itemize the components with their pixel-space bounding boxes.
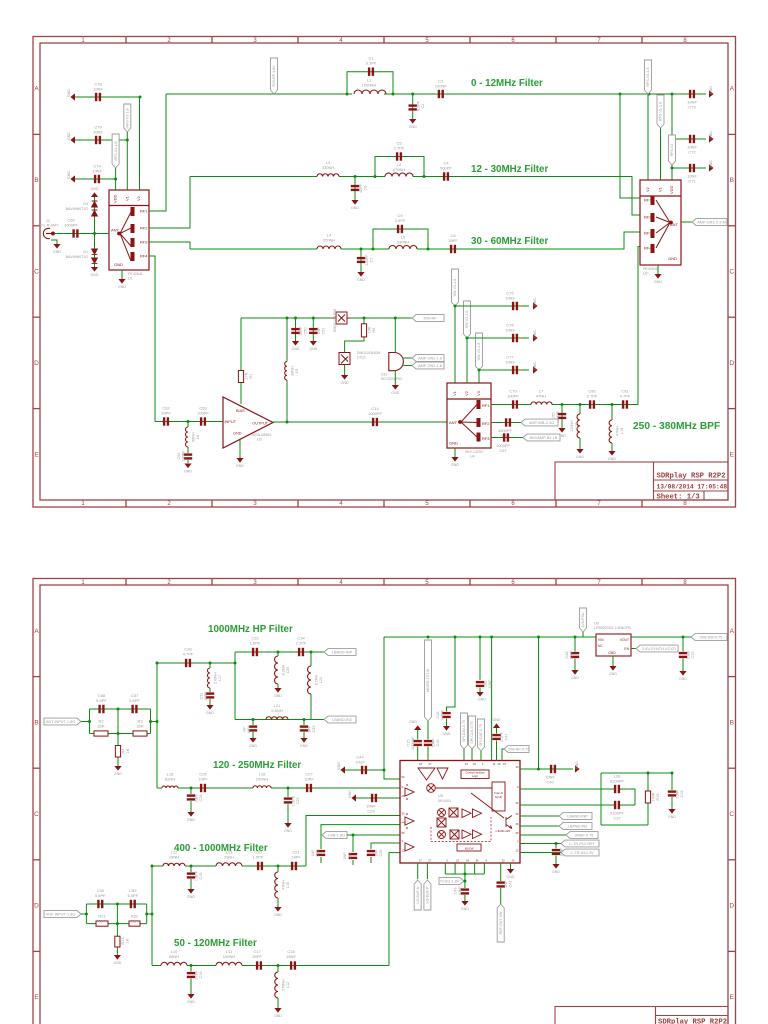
svg-text:2V8-RF-0.75: 2V8-RF-0.75 (508, 748, 530, 752)
svg-text:18PF: 18PF (291, 855, 301, 860)
ground below C41 (552, 864, 559, 869)
svg-text:10NF: 10NF (505, 296, 515, 301)
capacitor C47 (492, 734, 500, 740)
flag V1 control (124, 104, 131, 132)
U5 internals (405, 768, 512, 851)
capacitor C19b (187, 872, 195, 878)
capacitor C16b (187, 972, 195, 978)
svg-text:C-TR-P12-RET: C-TR-P12-RET (569, 842, 596, 846)
inductor L19 (609, 420, 612, 443)
wire C47 channel (496, 728, 498, 734)
svg-text:C10: C10 (691, 652, 695, 659)
junction C86 riser (479, 636, 482, 639)
wire C50 shunt (295, 318, 297, 341)
junction L20 (277, 651, 280, 654)
wire CTRL P12 (520, 843, 561, 845)
wire xtal loop top (601, 772, 672, 774)
flag above U2 V2 (645, 60, 652, 94)
svg-text:L12: L12 (286, 982, 290, 988)
svg-text:U10: U10 (381, 373, 387, 377)
ground below gate (394, 371, 396, 385)
svg-text:100NF: 100NF (435, 84, 448, 89)
svg-text:33R: 33R (98, 919, 105, 924)
wire R4 shunt (117, 708, 120, 711)
svg-text:U.FL-R-SMT: U.FL-R-SMT (38, 224, 59, 228)
ground below C33 (300, 738, 307, 743)
svg-text:Synth: Synth (495, 795, 503, 799)
wire C19 shunt (671, 773, 673, 790)
capacitor C51 (309, 328, 317, 334)
junction C10 (682, 636, 685, 639)
wire C2 shunt (412, 94, 414, 119)
wire C40 line (520, 768, 573, 770)
wire L6 shunt (187, 422, 189, 428)
inductor L22 (308, 666, 312, 694)
svg-text:L-BAND-AMP: L-BAND-AMP (496, 830, 511, 833)
wire into mixer VCC (384, 770, 400, 779)
ground below C19b (187, 889, 194, 894)
svg-text:GND: GND (309, 347, 317, 351)
capacitor C48 (442, 712, 450, 718)
wire C79 net (75, 139, 127, 141)
inductor L18 (253, 786, 271, 788)
flag V2 control (112, 134, 119, 168)
svg-text:A: A (730, 628, 735, 635)
capacitor C66 (505, 418, 511, 426)
capacitor C43 (461, 888, 469, 894)
wire mixer supply riser (491, 637, 493, 761)
ground below C64 (184, 464, 191, 469)
svg-text:C: C (34, 811, 39, 818)
ground below C43 (461, 901, 468, 906)
svg-text:RF2: RF2 (140, 226, 148, 231)
ground below C31 (206, 705, 213, 710)
svg-text:330NH: 330NH (397, 240, 410, 245)
svg-text:VOUT: VOUT (620, 638, 629, 642)
svg-text:V3: V3 (476, 390, 481, 396)
wire C44 line (345, 769, 384, 771)
svg-text:GND: GND (300, 744, 308, 748)
svg-text:Logic: Logic (472, 774, 479, 778)
capacitor C77 (512, 366, 518, 374)
ground below U2 (657, 265, 659, 274)
inductor L12b (275, 972, 278, 998)
U1 internal switch contacts (118, 208, 134, 262)
svg-text:GND: GND (187, 818, 195, 822)
svg-text:GND: GND (409, 125, 417, 129)
svg-text:RFS-V1-1.8: RFS-V1-1.8 (126, 109, 130, 128)
junction C55 (561, 403, 564, 406)
svg-text:C51: C51 (322, 328, 326, 335)
tank C9/L5 branch (373, 229, 428, 249)
junction C24 (190, 787, 193, 790)
flag above bus (580, 608, 587, 632)
svg-text:C71: C71 (688, 179, 696, 184)
capacitor C55 (558, 413, 566, 419)
capacitor C29 (371, 794, 377, 802)
ground below C55 (558, 428, 565, 433)
flag AMP enable 1 (412, 355, 444, 362)
wire C78 stub to U1 (75, 96, 140, 98)
junction C19 xtal (671, 772, 674, 775)
svg-text:SPI-DAT-0.75: SPI-DAT-0.75 (479, 724, 483, 746)
wire C15 channel (417, 730, 419, 740)
wire HP box right riser (310, 652, 312, 666)
capacitor C71 (689, 164, 695, 172)
wire C25 shunt (287, 788, 289, 797)
svg-text:MSI001: MSI001 (438, 799, 451, 803)
wire diode column (94, 197, 96, 267)
svg-text:BAV99W/T1G: BAV99W/T1G (66, 255, 89, 259)
svg-text:6.8NH: 6.8NH (271, 708, 282, 713)
wire L14 shunt (579, 405, 581, 415)
svg-text:100NH: 100NH (256, 777, 269, 782)
resistor R6 (361, 324, 366, 337)
svg-text:B: B (34, 177, 38, 184)
svg-text:RF2: RF2 (482, 421, 490, 426)
ground below op-amp (239, 440, 241, 458)
svg-text:GND: GND (571, 676, 579, 680)
svg-text:GND: GND (274, 694, 282, 698)
capacitor NF1 (249, 725, 257, 731)
svg-text:100NH: 100NH (223, 954, 236, 959)
ground right of C40 (575, 765, 580, 772)
ground right of C73 (709, 90, 714, 97)
wire C41 shunt (555, 844, 557, 849)
svg-text:ANT: ANT (449, 420, 458, 425)
wire xtal loop left (600, 773, 602, 825)
flag RF3 out (523, 434, 560, 441)
wire L9 riser (286, 318, 288, 362)
svg-text:C6: C6 (364, 186, 368, 191)
svg-text:PE42641: PE42641 (643, 267, 658, 271)
svg-text:1000PF: 1000PF (368, 411, 383, 416)
svg-text:L9: L9 (295, 369, 299, 373)
svg-text:U1: U1 (128, 277, 133, 281)
flag TCXO (439, 878, 464, 885)
svg-text:R6: R6 (372, 328, 376, 333)
flag LBAND-IN2 right (559, 823, 592, 830)
svg-text:470NH: 470NH (393, 167, 406, 172)
transistor Q2 DMG1016UDM (333, 312, 350, 324)
ground below C51 (310, 341, 317, 346)
resistor R1 (238, 371, 243, 383)
svg-text:LBAND-INP: LBAND-INP (567, 815, 588, 819)
inductor L14 (577, 414, 580, 438)
resistor R15 (647, 773, 649, 791)
capacitor C44 (361, 766, 367, 774)
svg-text:GND: GND (609, 672, 617, 676)
svg-text:10NF: 10NF (93, 87, 103, 92)
junction C48 riser (454, 636, 457, 639)
capacitor C41 (552, 849, 560, 855)
svg-text:10NF: 10NF (505, 360, 515, 365)
svg-text:GND: GND (533, 298, 537, 306)
wire U1 RF3 to filter3 (149, 242, 190, 249)
capacitor C67 (503, 433, 509, 441)
wire mixer in 2 (321, 825, 400, 849)
capacitor C7 (357, 257, 365, 263)
capacitor C34 (298, 648, 304, 656)
ground stub U5 (510, 863, 512, 869)
inductor L20 (275, 656, 279, 684)
IC U2 PE42641 switch (640, 180, 681, 265)
ground left of C29 (351, 794, 356, 801)
junction shunt C2 (411, 93, 414, 96)
capacitor C5 (396, 152, 402, 160)
svg-text:AMP-ON2-1.8: AMP-ON2-1.8 (418, 364, 442, 368)
ground right of C75 (533, 302, 538, 309)
svg-text:1000NH: 1000NH (362, 83, 377, 88)
inductor L10 (161, 962, 187, 965)
svg-text:1V8-PSU: 1V8-PSU (581, 612, 585, 627)
wire L17 shunt (209, 663, 211, 668)
wire amp output line (273, 421, 447, 423)
svg-text:1000PF: 1000PF (64, 223, 79, 228)
svg-text:LBAND-IN2: LBAND-IN2 (332, 718, 352, 722)
svg-text:B: B (34, 719, 38, 726)
junction C23 (352, 834, 355, 837)
svg-text:VDD: VDD (113, 194, 118, 203)
svg-text:GND: GND (575, 761, 579, 769)
wire C36 line (520, 788, 614, 790)
wire REF out (500, 863, 502, 881)
svg-text:SKY-13251: SKY-13251 (465, 450, 483, 454)
capacitor C27 (306, 784, 312, 792)
capacitor C31 (206, 692, 214, 698)
svg-text:ANT-INPUT-1.8G: ANT-INPUT-1.8G (46, 720, 75, 724)
svg-text:U7Q1: U7Q1 (357, 356, 366, 360)
svg-text:82PF: 82PF (359, 183, 363, 193)
svg-text:120NH: 120NH (570, 420, 574, 432)
svg-text:GND: GND (507, 875, 515, 879)
svg-text:10UF: 10UF (355, 760, 365, 765)
flag LO-P (424, 880, 431, 910)
node flag on filter1 line (271, 58, 278, 94)
capacitor C3 (438, 90, 444, 98)
svg-text:GND: GND (709, 86, 713, 94)
wire C51 shunt (312, 318, 314, 341)
junction L12b (277, 964, 280, 967)
capacitor C72 (689, 135, 695, 143)
wire C23 shunt (352, 835, 354, 852)
svg-text:RF1: RF1 (140, 209, 148, 214)
svg-text:10NF: 10NF (505, 328, 515, 333)
svg-text:C22: C22 (316, 850, 320, 857)
svg-text:RFS-V2: RFS-V2 (670, 144, 674, 157)
inductor L1 (354, 90, 386, 94)
capacitor C17 (256, 961, 262, 969)
IC U6 LP5900 (596, 634, 631, 656)
svg-text:SDRplay RSP R2P2: SDRplay RSP R2P2 (658, 1019, 727, 1024)
flag CTRL N12 (561, 849, 599, 856)
svg-text:33NH: 33NH (224, 855, 234, 860)
ground below NF1 (249, 738, 256, 743)
junction L17 (209, 662, 212, 665)
ground below D1 (91, 267, 98, 272)
wire gate riser (394, 318, 396, 353)
flag ANT input (44, 718, 81, 725)
svg-text:GND: GND (337, 762, 341, 770)
svg-text:GND: GND (184, 470, 192, 474)
svg-text:5V0-RF: 5V0-RF (423, 317, 437, 321)
svg-text:E: E (34, 451, 39, 458)
svg-text:AMP-OR1-2-3-M: AMP-OR1-2-3-M (697, 221, 725, 225)
flag SPI 2 (469, 716, 476, 749)
ground below C48 (443, 726, 450, 731)
svg-text:C31: C31 (200, 693, 204, 700)
wire SPI1 riser (463, 749, 465, 761)
transistor Q1 DMG1016UDM (339, 353, 350, 365)
capacitor C14 (372, 418, 378, 426)
svg-text:1NF: 1NF (504, 880, 508, 888)
wire 50-120 line (152, 965, 161, 967)
svg-text:10NF: 10NF (488, 679, 492, 689)
svg-text:C50: C50 (304, 328, 308, 335)
capacitor C62 (163, 417, 169, 425)
IC U4 SKY-13251 switch (447, 383, 491, 448)
svg-text:8PF: 8PF (308, 725, 312, 733)
svg-text:C28: C28 (379, 850, 383, 857)
svg-text:GND: GND (67, 132, 71, 140)
wire filter1 to U2 RF1 (620, 94, 640, 198)
svg-text:GND: GND (91, 273, 99, 277)
svg-text:L6: L6 (196, 435, 200, 439)
svg-text:B: B (730, 719, 734, 726)
svg-text:39PF: 39PF (448, 238, 458, 243)
wire V2 riser U4 (466, 338, 468, 383)
svg-text:V1: V1 (124, 195, 129, 201)
capacitor C42 (497, 881, 505, 887)
capacitor C37 (614, 801, 620, 809)
svg-text:39NH: 39NH (291, 366, 295, 376)
svg-text:SW-V2-1.8: SW-V2-1.8 (465, 311, 469, 329)
wire LBAND-INP out (520, 815, 559, 817)
svg-text:33R: 33R (131, 919, 138, 924)
flag LNB input (44, 911, 81, 918)
ground below C7 (357, 272, 364, 277)
svg-text:GND: GND (67, 171, 71, 179)
svg-text:GND: GND (114, 772, 122, 776)
svg-text:VREF-0.75: VREF-0.75 (575, 834, 594, 838)
svg-text:J2: J2 (46, 219, 50, 223)
svg-text:330NH: 330NH (322, 165, 335, 170)
capacitor C20 (257, 862, 263, 870)
svg-text:A: A (34, 86, 39, 93)
svg-text:C42: C42 (509, 881, 513, 888)
svg-text:C37: C37 (613, 816, 621, 821)
capacitor C46 (571, 652, 579, 658)
svg-text:GND: GND (709, 160, 713, 168)
svg-text:D: D (34, 360, 39, 367)
wire U2 V2 riser (647, 94, 649, 180)
svg-text:GND: GND (118, 285, 126, 289)
svg-text:D1: D1 (83, 250, 88, 254)
wire C74 net (75, 178, 116, 180)
wire R23 shunt (116, 903, 119, 906)
flag LBAND-INP right (559, 813, 592, 820)
capacitor C36 (614, 785, 620, 793)
wire NF1 shunt (252, 720, 254, 726)
svg-text:5.6PF: 5.6PF (96, 698, 107, 703)
svg-text:GND: GND (187, 1000, 195, 1004)
wire TCXO riser (464, 874, 466, 888)
inductor L15 (275, 872, 278, 898)
wire LO buffer P (426, 863, 428, 879)
svg-text:C16: C16 (436, 740, 440, 747)
wire 400-1000 line (152, 865, 163, 867)
svg-text:LBAND-INP: LBAND-INP (332, 651, 353, 655)
ground below C86 (476, 692, 483, 697)
wire C75 branch (455, 305, 529, 307)
inductor L4 (317, 246, 341, 249)
flag VREF (566, 832, 598, 839)
flag V2 U4 (464, 301, 471, 338)
wire U2 VDD riser (671, 94, 673, 180)
svg-text:0 - 12MHz Filter: 0 - 12MHz Filter (471, 78, 543, 89)
svg-text:U5: U5 (438, 794, 443, 798)
ground below U6 (612, 656, 614, 666)
junction R6 (363, 317, 366, 320)
svg-text:8.2PF: 8.2PF (417, 100, 421, 111)
svg-text:10K: 10K (368, 326, 372, 333)
svg-text:AMP-B/B-2-1G: AMP-B/B-2-1G (529, 421, 554, 425)
junction NF1 (252, 718, 255, 721)
svg-text:4.7PF: 4.7PF (620, 394, 631, 399)
svg-text:GND: GND (409, 720, 417, 724)
ground below C50 (292, 341, 299, 346)
wire attenuator2 entry (81, 913, 86, 915)
svg-text:E: E (730, 994, 735, 1001)
svg-text:GND: GND (357, 278, 365, 282)
svg-text:MS-Diff: MS-Diff (465, 847, 474, 851)
capacitor C6 (351, 185, 359, 191)
svg-text:U6: U6 (594, 622, 599, 626)
capacitor C25 (284, 797, 292, 803)
svg-text:C67: C67 (499, 448, 507, 453)
title block sheet2 (555, 1007, 728, 1024)
svg-text:33R: 33R (136, 724, 143, 729)
svg-text:39PF: 39PF (161, 411, 171, 416)
svg-text:GND: GND (348, 790, 352, 798)
svg-text:5.6PF: 5.6PF (127, 893, 138, 898)
wire LNB flag to mixer (347, 834, 400, 836)
capacitor C9 (397, 225, 403, 233)
wire L20 shunt (277, 652, 279, 656)
inductor L9 (285, 362, 287, 381)
junction C16b (190, 964, 193, 967)
capacitor C30 (185, 659, 191, 667)
svg-text:4.7PF: 4.7PF (441, 709, 445, 720)
wire 50-120 to mixer (389, 853, 400, 966)
flag V1 U4 (452, 269, 459, 306)
ground left of C44 (340, 766, 345, 773)
svg-text:GND: GND (351, 206, 359, 210)
svg-text:SDRplay RSP R2P2: SDRplay RSP R2P2 (657, 473, 726, 481)
flag LBAND-IN2 (324, 716, 356, 723)
ground GND at C78 left (70, 93, 75, 100)
svg-text:10NF: 10NF (676, 789, 680, 799)
svg-text:GND: GND (608, 457, 616, 461)
wire C16b shunt (190, 966, 192, 972)
svg-text:18NH: 18NH (169, 855, 179, 860)
capacitor C10 (679, 652, 687, 658)
svg-text:C7: C7 (370, 258, 374, 263)
ground below C24 (187, 812, 194, 817)
capacitor C2 (409, 104, 417, 110)
svg-text:C15: C15 (407, 740, 411, 747)
connector J2 (43, 228, 54, 238)
